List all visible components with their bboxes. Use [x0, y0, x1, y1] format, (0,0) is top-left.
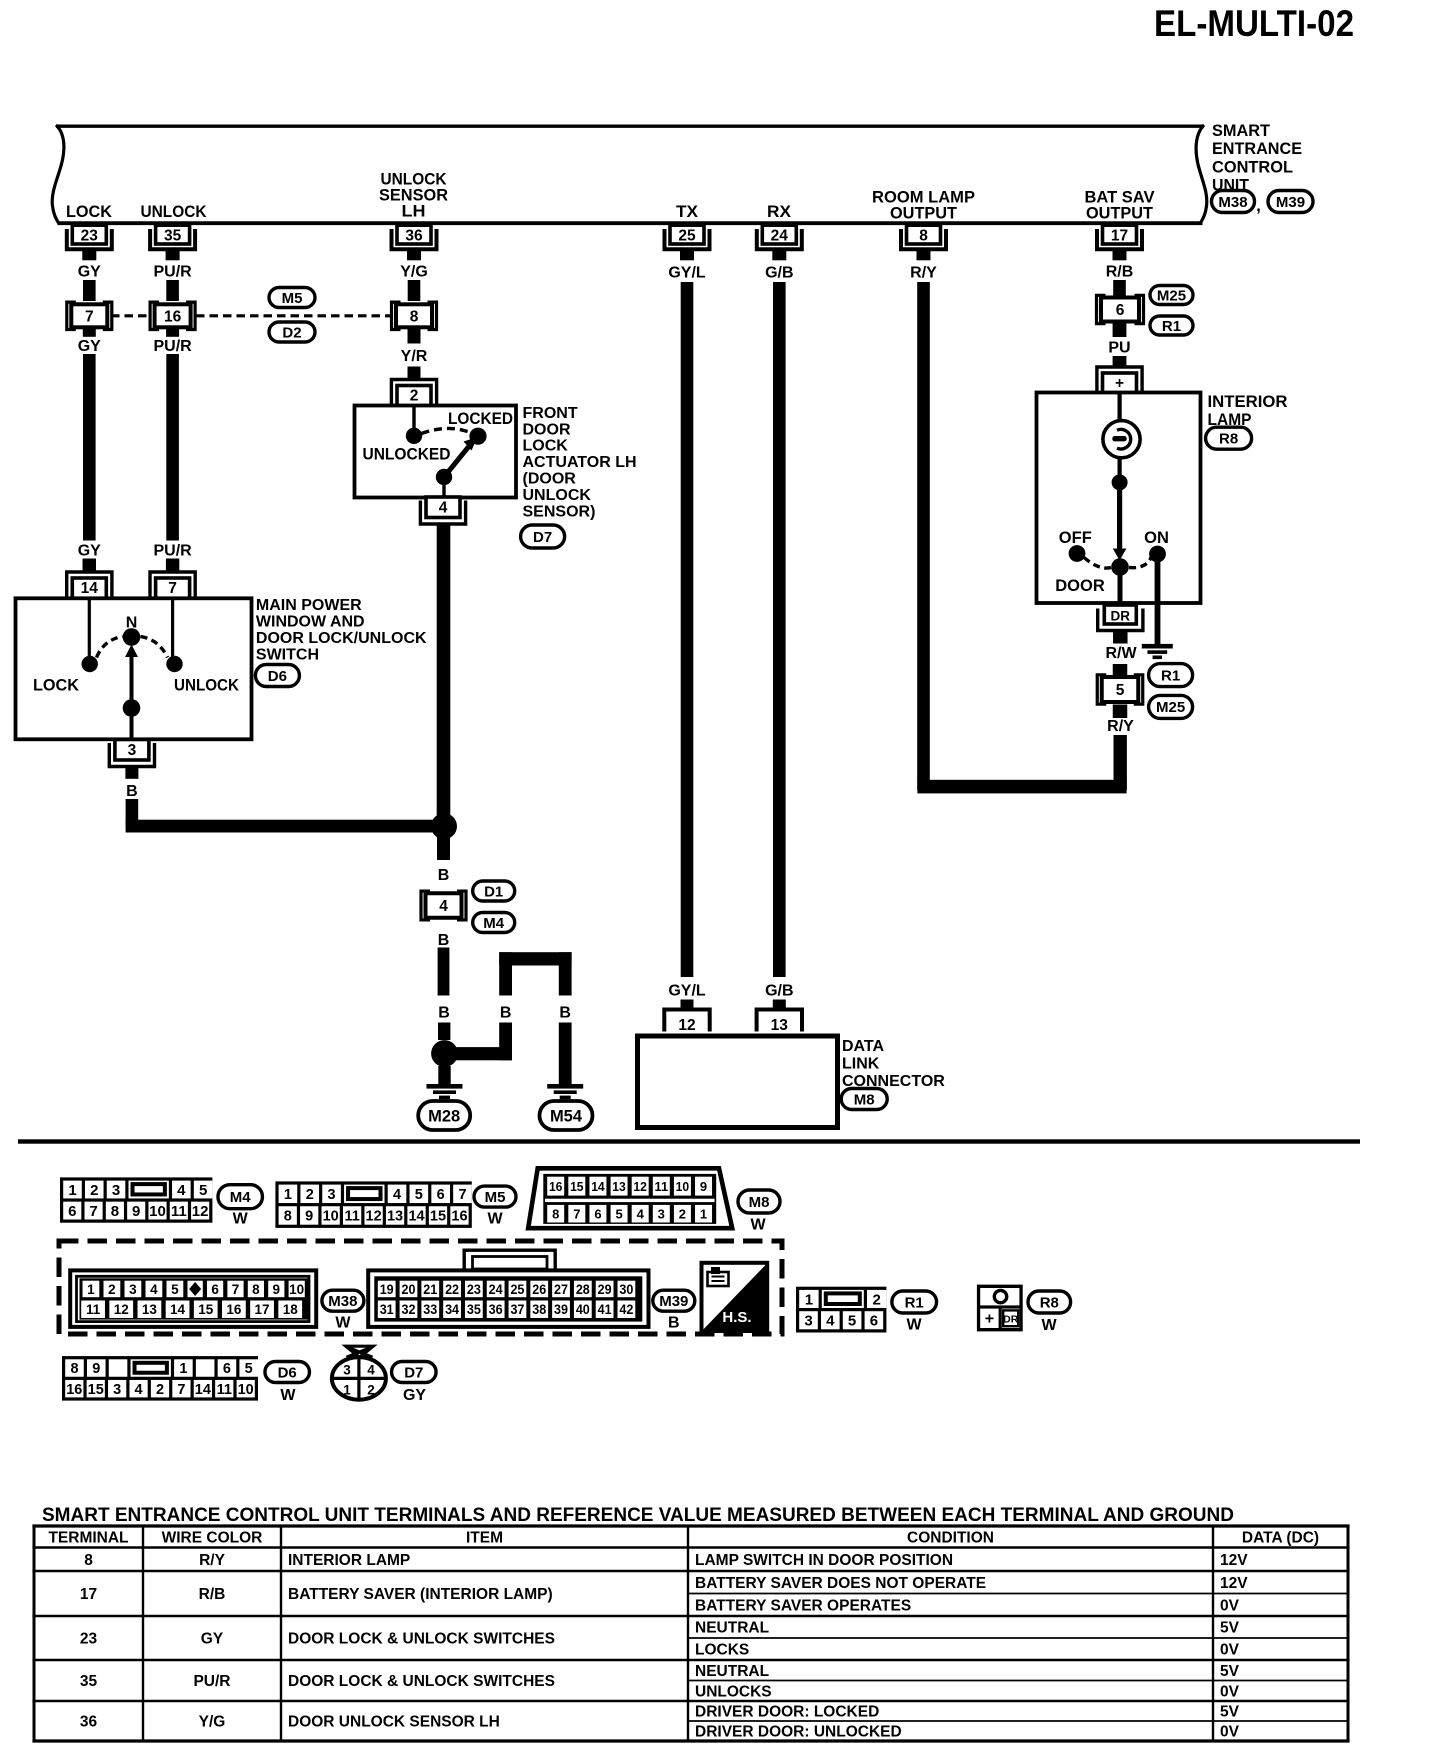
- svg-text:8: 8: [84, 1552, 93, 1569]
- svg-text:13: 13: [387, 1209, 403, 1225]
- svg-text:RX: RX: [767, 202, 792, 221]
- svg-text:B: B: [559, 1005, 571, 1022]
- svg-text:23: 23: [80, 1631, 98, 1648]
- svg-text:B: B: [500, 1005, 512, 1022]
- svg-text:19: 19: [380, 1282, 394, 1297]
- svg-text:3: 3: [129, 1282, 137, 1297]
- svg-text:2: 2: [156, 1382, 164, 1398]
- svg-text:M5: M5: [282, 290, 303, 307]
- svg-text:5: 5: [1116, 682, 1125, 699]
- svg-text:M28: M28: [428, 1107, 460, 1125]
- svg-text:11: 11: [171, 1203, 187, 1220]
- svg-text:11: 11: [344, 1209, 359, 1225]
- svg-text:R/Y: R/Y: [910, 265, 937, 282]
- svg-text:17: 17: [1111, 228, 1128, 245]
- svg-text:DOOR: DOOR: [523, 421, 571, 438]
- svg-text:22: 22: [445, 1282, 459, 1297]
- svg-text:W: W: [335, 1315, 351, 1332]
- svg-text:M25: M25: [1156, 699, 1185, 716]
- svg-text:DOOR LOCK/UNLOCK: DOOR LOCK/UNLOCK: [256, 630, 427, 647]
- svg-text:PU/R: PU/R: [153, 264, 192, 281]
- svg-text:4: 4: [367, 1363, 375, 1378]
- svg-text:41: 41: [598, 1302, 612, 1317]
- svg-text:D7: D7: [404, 1364, 423, 1381]
- svg-text:OUTPUT: OUTPUT: [890, 204, 958, 223]
- svg-text:2: 2: [367, 1383, 375, 1398]
- svg-text:10: 10: [238, 1382, 254, 1398]
- svg-text:INTERIOR LAMP: INTERIOR LAMP: [288, 1552, 410, 1569]
- svg-text:DATA: DATA: [842, 1038, 885, 1055]
- svg-text:,: ,: [1256, 196, 1261, 215]
- svg-text:25: 25: [678, 228, 696, 245]
- svg-text:DR: DR: [1111, 609, 1131, 624]
- svg-text:33: 33: [423, 1302, 437, 1317]
- svg-text:B: B: [126, 783, 138, 800]
- svg-text:7: 7: [232, 1282, 240, 1297]
- svg-text:R1: R1: [1162, 318, 1181, 335]
- svg-text:M4: M4: [483, 915, 504, 932]
- svg-text:16: 16: [549, 1179, 563, 1194]
- svg-text:ENTRANCE: ENTRANCE: [1212, 139, 1302, 158]
- svg-text:12V: 12V: [1220, 1552, 1248, 1569]
- svg-text:LAMP SWITCH IN DOOR POSITION: LAMP SWITCH IN DOOR POSITION: [695, 1552, 953, 1569]
- svg-text:4: 4: [150, 1282, 158, 1297]
- svg-text:Y/G: Y/G: [400, 264, 428, 281]
- svg-text:7: 7: [89, 1203, 97, 1220]
- svg-text:D1: D1: [484, 883, 503, 900]
- svg-text:BATTERY SAVER (INTERIOR LAMP): BATTERY SAVER (INTERIOR LAMP): [288, 1586, 553, 1603]
- svg-text:TX: TX: [676, 202, 699, 221]
- svg-text:40: 40: [576, 1302, 590, 1317]
- svg-text:6: 6: [68, 1203, 76, 1220]
- svg-text:LH: LH: [402, 202, 426, 221]
- svg-text:M8: M8: [749, 1194, 770, 1211]
- svg-text:SWITCH: SWITCH: [256, 647, 319, 664]
- svg-text:OFF: OFF: [1059, 529, 1092, 547]
- svg-text:16: 16: [451, 1209, 467, 1225]
- svg-text:8: 8: [111, 1203, 119, 1220]
- svg-text:7: 7: [85, 308, 94, 325]
- svg-text:10: 10: [149, 1203, 166, 1220]
- svg-text:2: 2: [873, 1291, 881, 1308]
- svg-text:3: 3: [328, 1187, 336, 1203]
- svg-text:DOOR LOCK & UNLOCK SWITCHES: DOOR LOCK & UNLOCK SWITCHES: [288, 1673, 555, 1690]
- svg-text:M25: M25: [1157, 287, 1186, 304]
- svg-text:SENSOR): SENSOR): [523, 503, 596, 520]
- svg-text:BATTERY SAVER DOES NOT OPERATE: BATTERY SAVER DOES NOT OPERATE: [695, 1575, 986, 1592]
- svg-text:12: 12: [366, 1209, 382, 1225]
- svg-text:GY: GY: [201, 1631, 224, 1648]
- svg-text:36: 36: [489, 1302, 503, 1317]
- svg-text:8: 8: [552, 1207, 559, 1222]
- svg-text:WINDOW AND: WINDOW AND: [256, 614, 365, 631]
- svg-text:R/W: R/W: [1105, 645, 1137, 662]
- svg-text:1: 1: [87, 1282, 95, 1297]
- svg-text:+: +: [1115, 375, 1124, 392]
- svg-text:7: 7: [177, 1382, 185, 1398]
- svg-text:MAIN POWER: MAIN POWER: [256, 597, 362, 614]
- svg-text:DRIVER DOOR: LOCKED: DRIVER DOOR: LOCKED: [695, 1704, 879, 1721]
- svg-text:M39: M39: [659, 1293, 688, 1310]
- svg-text:26: 26: [532, 1282, 546, 1297]
- svg-text:5: 5: [171, 1282, 179, 1297]
- svg-text:D6: D6: [268, 668, 287, 685]
- svg-text:1: 1: [68, 1182, 76, 1199]
- svg-text:R/B: R/B: [199, 1586, 226, 1603]
- svg-text:PU/R: PU/R: [193, 1673, 230, 1690]
- svg-text:B: B: [668, 1315, 680, 1332]
- svg-text:3: 3: [112, 1182, 120, 1199]
- svg-text:Y/R: Y/R: [401, 348, 428, 365]
- svg-text:UNLOCK: UNLOCK: [141, 202, 208, 221]
- svg-text:31: 31: [380, 1302, 394, 1317]
- svg-text:W: W: [1041, 1317, 1057, 1334]
- svg-text:6: 6: [870, 1313, 878, 1330]
- svg-text:R/Y: R/Y: [199, 1552, 226, 1569]
- svg-text:10: 10: [323, 1209, 339, 1225]
- svg-text:2: 2: [306, 1187, 314, 1203]
- svg-text:20: 20: [401, 1282, 415, 1297]
- svg-text:TERMINAL: TERMINAL: [48, 1530, 128, 1547]
- svg-text:R/B: R/B: [1106, 264, 1134, 281]
- svg-text:6: 6: [1116, 302, 1125, 319]
- svg-text:28: 28: [576, 1282, 590, 1297]
- svg-text:14: 14: [81, 580, 99, 597]
- svg-text:27: 27: [554, 1282, 568, 1297]
- svg-text:1: 1: [284, 1187, 292, 1203]
- svg-text:R8: R8: [1219, 431, 1238, 448]
- svg-text:5V: 5V: [1220, 1704, 1240, 1721]
- svg-text:5V: 5V: [1220, 1620, 1240, 1637]
- svg-text:W: W: [233, 1211, 249, 1228]
- svg-text:9: 9: [92, 1361, 100, 1377]
- svg-text:3: 3: [128, 742, 137, 759]
- svg-text:25: 25: [510, 1282, 524, 1297]
- svg-text:DOOR UNLOCK SENSOR LH: DOOR UNLOCK SENSOR LH: [288, 1714, 500, 1731]
- svg-text:24: 24: [489, 1282, 503, 1297]
- svg-text:5: 5: [415, 1187, 423, 1203]
- svg-text:W: W: [487, 1211, 503, 1228]
- svg-text:16: 16: [164, 308, 182, 325]
- svg-text:4: 4: [826, 1313, 835, 1330]
- svg-text:FRONT: FRONT: [523, 405, 578, 422]
- svg-text:DOOR: DOOR: [1055, 577, 1105, 595]
- svg-text:9: 9: [305, 1209, 313, 1225]
- svg-text:GY: GY: [78, 338, 101, 355]
- svg-text:M38: M38: [1218, 194, 1247, 211]
- svg-text:GY/L: GY/L: [668, 983, 706, 1000]
- svg-text:5: 5: [615, 1207, 622, 1222]
- svg-text:0V: 0V: [1220, 1724, 1240, 1741]
- svg-text:18: 18: [283, 1302, 299, 1317]
- svg-text:29: 29: [598, 1282, 612, 1297]
- svg-text:5V: 5V: [1220, 1663, 1240, 1680]
- svg-text:14: 14: [195, 1382, 211, 1398]
- svg-text:CONTROL: CONTROL: [1212, 157, 1293, 176]
- svg-text:12: 12: [678, 1017, 695, 1034]
- svg-text:M8: M8: [854, 1091, 875, 1108]
- svg-text:(DOOR: (DOOR: [523, 471, 577, 488]
- svg-text:R1: R1: [905, 1294, 924, 1311]
- svg-text:UNLOCK: UNLOCK: [523, 487, 592, 504]
- svg-text:17: 17: [255, 1302, 270, 1317]
- svg-text:ACTUATOR LH: ACTUATOR LH: [523, 454, 637, 471]
- svg-text:DOOR LOCK & UNLOCK SWITCHES: DOOR LOCK & UNLOCK SWITCHES: [288, 1631, 555, 1648]
- svg-text:ON: ON: [1144, 529, 1169, 547]
- svg-text:0V: 0V: [1220, 1683, 1240, 1700]
- svg-text:UNLOCKS: UNLOCKS: [695, 1683, 772, 1700]
- svg-text:G/B: G/B: [765, 983, 793, 1000]
- svg-text:2: 2: [90, 1182, 98, 1199]
- svg-text:13: 13: [612, 1179, 626, 1194]
- svg-text:2: 2: [108, 1282, 116, 1297]
- svg-text:4: 4: [393, 1187, 401, 1203]
- svg-text:PU: PU: [1108, 340, 1130, 357]
- svg-text:0V: 0V: [1220, 1597, 1240, 1614]
- svg-text:H.S.: H.S.: [722, 1309, 751, 1326]
- svg-text:16: 16: [226, 1302, 242, 1317]
- svg-text:11: 11: [217, 1382, 232, 1398]
- svg-text:0V: 0V: [1220, 1642, 1240, 1659]
- svg-text:11: 11: [86, 1302, 101, 1317]
- svg-text:LOCKS: LOCKS: [695, 1642, 749, 1659]
- svg-text:ITEM: ITEM: [466, 1530, 503, 1547]
- svg-text:GY: GY: [403, 1387, 426, 1404]
- svg-text:W: W: [906, 1317, 922, 1334]
- svg-text:WIRE COLOR: WIRE COLOR: [162, 1530, 263, 1547]
- svg-text:9: 9: [273, 1282, 281, 1297]
- svg-text:EL-MULTI-02: EL-MULTI-02: [1154, 3, 1354, 44]
- svg-text:LOCK: LOCK: [66, 202, 113, 221]
- svg-text:W: W: [750, 1217, 766, 1234]
- svg-text:39: 39: [554, 1302, 568, 1317]
- svg-text:4: 4: [439, 898, 448, 915]
- svg-text:B: B: [438, 932, 450, 949]
- svg-text:1: 1: [343, 1383, 351, 1398]
- svg-text:4: 4: [135, 1382, 143, 1398]
- svg-text:NEUTRAL: NEUTRAL: [695, 1620, 769, 1637]
- svg-text:10: 10: [676, 1179, 690, 1194]
- svg-text:M38: M38: [328, 1293, 357, 1310]
- svg-text:3: 3: [343, 1363, 351, 1378]
- svg-text:37: 37: [510, 1302, 524, 1317]
- svg-text:2: 2: [679, 1207, 686, 1222]
- svg-text:38: 38: [532, 1302, 546, 1317]
- svg-text:7: 7: [168, 580, 177, 597]
- svg-text:35: 35: [80, 1673, 98, 1690]
- svg-text:7: 7: [458, 1187, 466, 1203]
- svg-text:INTERIOR: INTERIOR: [1208, 392, 1288, 411]
- svg-text:GY: GY: [78, 264, 101, 281]
- svg-text:1: 1: [179, 1361, 187, 1377]
- svg-text:3: 3: [113, 1382, 121, 1398]
- svg-text:16: 16: [66, 1382, 82, 1398]
- svg-text:15: 15: [198, 1302, 214, 1317]
- svg-text:4: 4: [177, 1182, 186, 1199]
- svg-text:14: 14: [408, 1209, 424, 1225]
- svg-text:R1: R1: [1161, 667, 1180, 684]
- svg-text:5: 5: [245, 1361, 253, 1377]
- svg-text:12: 12: [192, 1203, 209, 1220]
- svg-text:8: 8: [70, 1361, 78, 1377]
- svg-text:6: 6: [223, 1361, 231, 1377]
- svg-text:D6: D6: [278, 1364, 297, 1381]
- svg-text:13: 13: [771, 1017, 789, 1034]
- svg-text:21: 21: [423, 1282, 437, 1297]
- svg-text:BATTERY SAVER OPERATES: BATTERY SAVER OPERATES: [695, 1597, 911, 1614]
- svg-text:8: 8: [252, 1282, 260, 1297]
- svg-text:4: 4: [439, 500, 448, 517]
- svg-text:15: 15: [430, 1209, 446, 1225]
- svg-text:6: 6: [211, 1282, 219, 1297]
- svg-text:M5: M5: [485, 1189, 506, 1206]
- svg-text:D2: D2: [282, 324, 301, 341]
- svg-text:42: 42: [619, 1302, 633, 1317]
- svg-text:23: 23: [81, 228, 99, 245]
- svg-text:1: 1: [805, 1291, 813, 1308]
- svg-text:W: W: [280, 1387, 296, 1404]
- svg-text:DR: DR: [1003, 1314, 1019, 1326]
- svg-text:3: 3: [804, 1313, 812, 1330]
- svg-text:3: 3: [658, 1207, 665, 1222]
- svg-text:D7: D7: [533, 529, 552, 546]
- svg-text:36: 36: [80, 1714, 98, 1731]
- svg-text:15: 15: [88, 1382, 104, 1398]
- svg-text:PU/R: PU/R: [153, 543, 192, 560]
- svg-text:SMART ENTRANCE CONTROL UNIT TE: SMART ENTRANCE CONTROL UNIT TERMINALS AN…: [42, 1505, 1234, 1526]
- svg-text:R8: R8: [1040, 1294, 1059, 1311]
- svg-text:M54: M54: [550, 1107, 583, 1125]
- svg-text:PU/R: PU/R: [153, 338, 192, 355]
- svg-text:Y/G: Y/G: [199, 1714, 226, 1731]
- svg-text:OUTPUT: OUTPUT: [1086, 204, 1154, 223]
- svg-text:36: 36: [405, 228, 423, 245]
- svg-text:DATA (DC): DATA (DC): [1242, 1530, 1319, 1547]
- svg-text:23: 23: [467, 1282, 481, 1297]
- svg-text:35: 35: [467, 1302, 481, 1317]
- svg-text:34: 34: [445, 1302, 459, 1317]
- svg-text:B: B: [438, 1005, 450, 1022]
- svg-text:8: 8: [284, 1209, 292, 1225]
- svg-text:15: 15: [570, 1179, 584, 1194]
- svg-text:11: 11: [655, 1179, 669, 1194]
- svg-text:30: 30: [619, 1282, 633, 1297]
- svg-text:N: N: [126, 615, 138, 632]
- svg-text:17: 17: [80, 1586, 97, 1603]
- svg-text:NEUTRAL: NEUTRAL: [695, 1663, 769, 1680]
- svg-text:10: 10: [289, 1282, 304, 1297]
- svg-text:LOCKED: LOCKED: [448, 409, 513, 428]
- svg-text:5: 5: [848, 1313, 856, 1330]
- svg-text:GY: GY: [78, 543, 101, 560]
- svg-text:6: 6: [437, 1187, 445, 1203]
- svg-text:4: 4: [637, 1207, 645, 1222]
- svg-text:24: 24: [771, 228, 789, 245]
- svg-text:8: 8: [919, 228, 928, 245]
- svg-text:14: 14: [170, 1302, 186, 1317]
- svg-text:CONDITION: CONDITION: [907, 1530, 994, 1547]
- svg-text:35: 35: [164, 228, 182, 245]
- svg-text:SMART: SMART: [1212, 121, 1271, 140]
- svg-text:5: 5: [199, 1182, 207, 1199]
- svg-text:DRIVER DOOR: UNLOCKED: DRIVER DOOR: UNLOCKED: [695, 1724, 902, 1741]
- svg-text:14: 14: [591, 1179, 605, 1194]
- svg-text:+: +: [985, 1311, 994, 1328]
- svg-text:8: 8: [410, 308, 419, 325]
- svg-text:12V: 12V: [1220, 1575, 1248, 1592]
- svg-text:M39: M39: [1276, 194, 1305, 211]
- svg-text:7: 7: [573, 1207, 580, 1222]
- svg-text:B: B: [438, 867, 450, 884]
- svg-text:UNLOCK: UNLOCK: [174, 676, 240, 695]
- svg-text:LOCK: LOCK: [33, 676, 80, 695]
- svg-text:2: 2: [410, 388, 419, 405]
- svg-text:32: 32: [401, 1302, 415, 1317]
- svg-text:LOCK: LOCK: [523, 438, 569, 455]
- svg-text:1: 1: [700, 1207, 707, 1222]
- svg-text:UNLOCKED: UNLOCKED: [363, 445, 451, 464]
- svg-text:GY/L: GY/L: [668, 265, 706, 282]
- svg-text:M4: M4: [230, 1189, 251, 1206]
- svg-text:12: 12: [114, 1302, 129, 1317]
- svg-text:6: 6: [594, 1207, 601, 1222]
- svg-text:13: 13: [142, 1302, 158, 1317]
- svg-text:G/B: G/B: [765, 265, 793, 282]
- svg-text:LINK: LINK: [842, 1056, 880, 1073]
- svg-text:9: 9: [132, 1203, 140, 1220]
- svg-text:12: 12: [633, 1179, 647, 1194]
- svg-text:9: 9: [700, 1179, 707, 1194]
- svg-text:R/Y: R/Y: [1107, 718, 1134, 735]
